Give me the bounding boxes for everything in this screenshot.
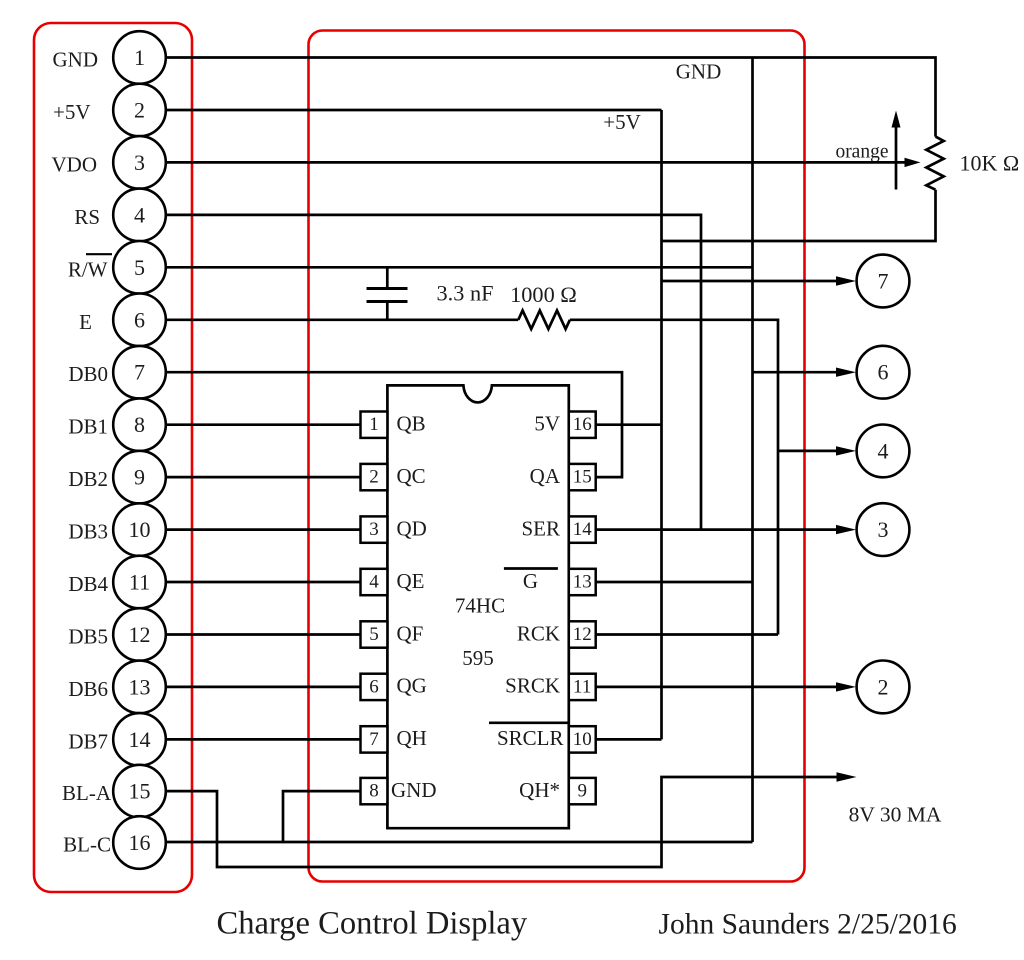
svg-text:+5V: +5V (53, 100, 91, 124)
svg-text:14: 14 (129, 727, 151, 752)
shift register block (red outline) (309, 31, 805, 882)
connector pin circle 11 (113, 556, 166, 609)
connector pin circle 16 (113, 816, 166, 869)
svg-text:3: 3 (369, 519, 379, 540)
svg-text:4: 4 (369, 572, 379, 593)
svg-text:2: 2 (369, 467, 379, 488)
potentiometer R2 10K body (926, 137, 943, 190)
svg-text:3: 3 (878, 517, 889, 542)
pin box 3 (361, 516, 388, 542)
wire DB1 row (pin8) (166, 423, 361, 426)
svg-text:595: 595 (462, 646, 494, 670)
connector pin circle 14 (113, 713, 166, 766)
wire DB4 row (pin11) (166, 581, 361, 584)
svg-text:13: 13 (129, 674, 151, 699)
svg-text:7: 7 (134, 360, 145, 385)
wire BL-A (pin15) to 8V supply arrow (166, 777, 838, 867)
svg-text:6: 6 (878, 360, 889, 385)
svg-text:GND: GND (676, 59, 722, 83)
wire RS row (pin4) down to SER row (166, 215, 702, 530)
terminal circle 2 (857, 661, 910, 714)
svg-text:16: 16 (129, 830, 151, 855)
svg-text:15: 15 (573, 467, 592, 488)
pin box 14 (569, 516, 596, 542)
svg-text:8V 30 MA: 8V 30 MA (849, 803, 942, 827)
svg-text:3: 3 (134, 150, 145, 175)
svg-text:DB0: DB0 (68, 362, 108, 386)
pin box 12 (569, 621, 596, 647)
svg-text:7: 7 (878, 269, 889, 294)
svg-text:RS: RS (74, 205, 100, 229)
svg-text:10: 10 (129, 517, 151, 542)
wire GND vertical (main ground bus) (751, 58, 754, 843)
svg-text:Charge Control Display: Charge Control Display (217, 906, 528, 942)
svg-text:SRCLR: SRCLR (497, 726, 564, 750)
wire DB2 row (pin9) (166, 476, 361, 479)
svg-text:16: 16 (573, 414, 592, 435)
pin box 2 (361, 464, 388, 490)
connector pin circle 4 (113, 189, 166, 242)
svg-text:15: 15 (129, 779, 151, 804)
svg-text:10: 10 (573, 729, 592, 750)
svg-text:GND: GND (53, 48, 99, 72)
svg-text:G: G (523, 569, 538, 593)
svg-text:QB: QB (397, 412, 426, 436)
connector pin circle 15 (113, 765, 166, 818)
pin box 7 (361, 726, 388, 752)
op IC U1 74HC595 outline (387, 385, 568, 828)
svg-text:74HC: 74HC (455, 594, 505, 618)
svg-text:QG: QG (397, 674, 427, 698)
pin box 10 (569, 726, 596, 752)
pin box 6 (361, 674, 388, 700)
svg-text:DB5: DB5 (68, 625, 108, 649)
terminal circle 6 (857, 346, 910, 399)
svg-text:7: 7 (369, 729, 379, 750)
svg-text:R/W: R/W (68, 257, 108, 281)
wire resistor to RCK vertical (570, 320, 778, 635)
svg-text:9: 9 (134, 465, 145, 490)
pin box 5 (361, 621, 388, 647)
connector pin circle 2 (113, 84, 166, 137)
svg-text:QE: QE (397, 569, 425, 593)
connector pin circle 5 (113, 241, 166, 294)
wire DB3 row (pin10) (166, 528, 361, 531)
svg-text:6: 6 (134, 307, 145, 332)
svg-text:2: 2 (134, 98, 145, 123)
capacitor C1 3.3nF (386, 267, 389, 288)
svg-text:14: 14 (573, 519, 593, 540)
svg-text:5: 5 (369, 624, 379, 645)
svg-text:3.3 nF: 3.3 nF (437, 281, 494, 306)
svg-text:QD: QD (397, 516, 427, 540)
wire DB7 row (pin14) (166, 738, 361, 741)
connector pin circle 8 (113, 398, 166, 451)
wire pot bottom lead to +5V vertical (662, 190, 936, 241)
svg-text:DB7: DB7 (68, 729, 108, 753)
svg-text:SRCK: SRCK (505, 674, 560, 698)
connector pin circle 10 (113, 503, 166, 556)
svg-text:VDO: VDO (52, 152, 98, 176)
wire SRCLR pin10 to +5V bus (596, 738, 662, 741)
svg-text:11: 11 (129, 570, 150, 595)
svg-text:5: 5 (134, 255, 145, 280)
connector pin circle 13 (113, 661, 166, 714)
wire +5V vertical bus (660, 110, 663, 739)
svg-text:DB2: DB2 (68, 467, 108, 491)
wire +5V row (pin2) (166, 109, 662, 112)
pin box 8 (361, 778, 388, 804)
svg-text:5V: 5V (534, 412, 560, 436)
pin box 9 (569, 778, 596, 804)
connector pin circle 9 (113, 451, 166, 504)
svg-text:9: 9 (577, 781, 587, 802)
svg-text:+5V: +5V (603, 110, 641, 134)
svg-text:2: 2 (878, 674, 889, 699)
svg-text:BL-A: BL-A (62, 781, 112, 805)
svg-text:QC: QC (397, 464, 426, 488)
pin box 13 (569, 569, 596, 595)
wire to Arduino pin 4 (778, 450, 837, 453)
svg-text:10K Ω: 10K Ω (960, 151, 1020, 176)
svg-text:orange: orange (835, 142, 888, 163)
resistor R1 1000 ohm (518, 311, 570, 330)
connector pin circle 1 (113, 31, 166, 84)
wire BL-C row (pin16) to ground bus (166, 841, 753, 844)
wire R/W row (pin5 to ground bus) (166, 266, 753, 269)
wire to Arduino pin 6 (753, 371, 838, 374)
wire IC GND pin8 to BL-C net (283, 791, 361, 842)
pot wiper adjustment arrow (vertical, up) (895, 126, 898, 190)
svg-text:E: E (79, 310, 92, 334)
pin box 4 (361, 569, 388, 595)
svg-text:1000 Ω: 1000 Ω (510, 282, 577, 307)
wire VDO row (pin3 to pot wiper) (166, 161, 907, 164)
terminal circle 4 (857, 425, 910, 478)
wire 5V pin16 to +5V bus (596, 423, 662, 426)
svg-text:13: 13 (573, 572, 592, 593)
terminal circle 7 (857, 255, 910, 308)
svg-text:8: 8 (369, 781, 379, 802)
svg-text:1: 1 (369, 414, 379, 435)
svg-text:DB6: DB6 (68, 677, 108, 701)
LCD connector block J1 (red outline) (34, 23, 192, 892)
svg-text:11: 11 (573, 676, 591, 697)
wire RCK pin12 (596, 633, 778, 636)
pin box 15 (569, 464, 596, 490)
svg-text:DB3: DB3 (68, 520, 108, 544)
svg-text:12: 12 (573, 624, 592, 645)
wire SER to Arduino pin 3 (596, 528, 837, 531)
wire to Arduino pin 7 (662, 280, 838, 283)
pin box 11 (569, 674, 596, 700)
svg-text:DB1: DB1 (68, 415, 108, 439)
connector pin circle 3 (113, 136, 166, 189)
svg-text:DB4: DB4 (68, 572, 108, 596)
wire SRCK to Arduino pin 2 (596, 686, 837, 689)
svg-text:8: 8 (134, 412, 145, 437)
svg-text:GND: GND (391, 778, 437, 802)
pin box 1 (361, 412, 388, 438)
pin box 16 (569, 412, 596, 438)
wire E row (pin6) to resistor (166, 318, 519, 321)
wire DB0 row (pin7) to QA (166, 372, 623, 477)
terminal circle 3 (857, 503, 910, 556)
svg-text:4: 4 (134, 202, 145, 227)
connector pin circle 7 (113, 346, 166, 399)
svg-text:1: 1 (134, 45, 145, 70)
wire G pin13 to ground bus (596, 581, 753, 584)
wire GND row (pin1 to 10K pot top) (166, 58, 936, 137)
svg-text:SER: SER (521, 516, 560, 540)
svg-text:12: 12 (129, 622, 151, 647)
svg-text:RCK: RCK (517, 621, 560, 645)
wire DB5 row (pin12) (166, 633, 361, 636)
svg-text:6: 6 (369, 676, 379, 697)
svg-text:4: 4 (878, 438, 889, 463)
svg-text:QF: QF (397, 621, 424, 645)
wire DB6 row (pin13) (166, 686, 361, 689)
connector pin circle 12 (113, 608, 166, 661)
svg-text:John Saunders 2/25/2016: John Saunders 2/25/2016 (659, 909, 957, 941)
connector pin circle 6 (113, 294, 166, 347)
svg-text:QA: QA (530, 464, 561, 488)
svg-text:QH: QH (397, 726, 427, 750)
svg-text:BL-C: BL-C (63, 833, 111, 857)
arrow wiper (905, 158, 921, 167)
svg-text:QH*: QH* (519, 778, 560, 802)
